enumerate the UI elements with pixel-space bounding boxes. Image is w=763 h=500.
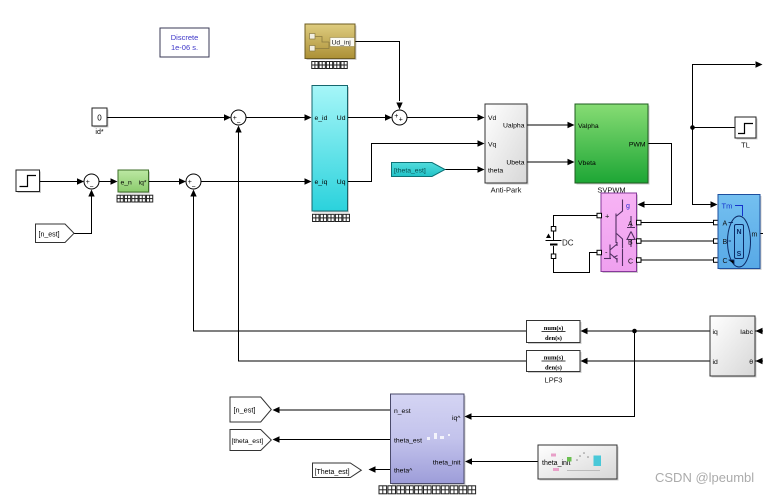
svg-text:id*: id* [95,129,103,136]
svg-text:+: + [605,212,610,221]
svg-text:0: 0 [97,114,102,123]
svg-text:TL: TL [741,141,750,150]
svg-text:Valpha: Valpha [578,123,599,130]
svg-text:−: − [191,184,195,191]
svg-text:−: − [89,184,93,191]
svg-text:PWM: PWM [629,142,646,149]
svg-text:e_iq: e_iq [315,179,328,186]
svg-text:C: C [628,259,633,266]
svg-text:[n_est]: [n_est] [234,406,256,415]
svg-text:Ud: Ud [337,115,346,122]
svg-text:theta: theta [488,168,503,175]
svg-text:Tm: Tm [722,202,733,211]
svg-text:[n_est]: [n_est] [39,231,60,238]
svg-text:DC: DC [562,239,574,248]
svg-text:C: C [723,258,728,265]
svg-text:id: id [713,359,719,366]
svg-text:e_id: e_id [315,115,328,122]
svg-text:B: B [723,239,728,246]
svg-text:iq: iq [713,329,719,336]
svg-text:[theta_est]: [theta_est] [394,167,426,174]
svg-text:1e-06 s.: 1e-06 s. [171,43,198,52]
svg-text:Vq: Vq [488,142,497,149]
svg-text:e_n: e_n [121,180,133,187]
svg-text:iq^: iq^ [452,415,461,422]
svg-text:theta_est: theta_est [394,438,422,445]
svg-text:theta^: theta^ [394,468,413,475]
svg-text:+: + [394,113,398,120]
svg-text:Ubeta: Ubeta [506,160,524,167]
svg-text:θ: θ [749,359,753,366]
svg-text:theta_init: theta_init [542,460,570,467]
svg-text:iq*: iq* [139,180,147,187]
svg-text:Vbeta: Vbeta [578,160,596,167]
svg-text:A: A [723,221,728,228]
svg-text:LPF3: LPF3 [545,376,563,385]
svg-text:m: m [752,232,758,239]
svg-text:N: N [736,229,741,236]
svg-text:Ualpha: Ualpha [503,123,525,130]
svg-text:Ud_inj: Ud_inj [332,40,352,47]
svg-text:num(s): num(s) [544,355,564,362]
svg-text:S: S [737,251,742,258]
svg-text:CSDN @lpeumbl: CSDN @lpeumbl [655,470,754,485]
svg-text:theta_init: theta_init [433,460,461,467]
svg-text:Iabc: Iabc [740,329,753,336]
svg-text:Uq: Uq [337,179,346,186]
svg-text:Vd: Vd [488,115,497,122]
svg-text:Discrete: Discrete [171,33,199,42]
svg-text:n_est: n_est [394,408,411,415]
svg-text:den(s): den(s) [545,335,562,342]
svg-text:−: − [236,120,240,127]
svg-text:den(s): den(s) [545,365,562,372]
svg-text:A: A [628,221,633,228]
svg-text:B: B [628,240,633,247]
svg-text:[theta_est]: [theta_est] [232,438,264,445]
svg-text:+: + [399,117,403,124]
svg-text:g: g [626,203,630,210]
svg-text:Anti-Park: Anti-Park [491,186,522,195]
svg-text:num(s): num(s) [544,325,564,332]
svg-text:[Theta_est]: [Theta_est] [315,469,350,476]
